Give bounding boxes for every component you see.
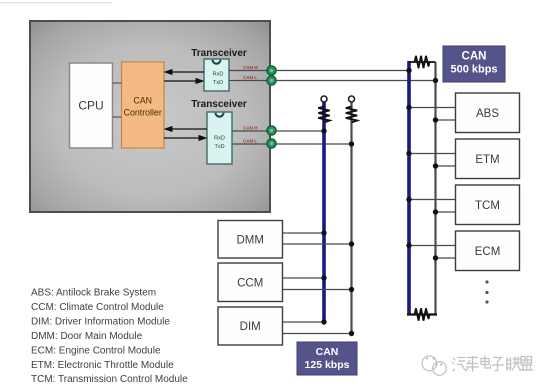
svg-text:ECM: ECM [475,246,501,258]
svg-text:TxD: TxD [213,80,223,86]
svg-text:CAN: CAN [133,96,152,106]
svg-text:ECM: Engine Control Module: ECM: Engine Control Module [31,345,161,356]
svg-text:CAN: CAN [462,51,487,63]
svg-text:CAN: CAN [316,346,339,358]
svg-text:CCM: CCM [237,277,263,289]
svg-text:Transceiver: Transceiver [191,99,247,110]
svg-text:DMM: DMM [236,234,263,246]
svg-text:CAN L: CAN L [243,75,257,80]
svg-text:Controller: Controller [124,108,162,118]
svg-text:DIM: DIM [240,321,261,333]
svg-text:CAN L: CAN L [243,139,257,144]
svg-text:ABS: Antilock Brake System: ABS: Antilock Brake System [31,288,156,299]
svg-text:TCM: Transmission Control Modu: TCM: Transmission Control Module [31,374,188,385]
svg-text:500 kbps: 500 kbps [450,64,497,76]
svg-text:DMM: Door Main Module: DMM: Door Main Module [31,331,143,342]
svg-text:DIM: Driver Information Module: DIM: Driver Information Module [31,316,170,327]
svg-text:TCM: TCM [475,200,500,212]
svg-text:ABS: ABS [476,108,499,120]
svg-text:CAN H: CAN H [243,65,258,70]
svg-text:TxD: TxD [214,144,224,150]
svg-text:RxD: RxD [213,72,224,78]
svg-text:Transceiver: Transceiver [191,48,247,59]
svg-text:RxD: RxD [214,136,225,142]
svg-text:CCM: Climate Control Module: CCM: Climate Control Module [31,302,164,313]
svg-text:ETM: ETM [475,154,499,166]
svg-text:CPU: CPU [78,99,103,113]
svg-text:ETM: Electronic Throttle Modul: ETM: Electronic Throttle Module [31,360,174,371]
svg-text:CAN H: CAN H [243,126,258,131]
svg-text:125 kbps: 125 kbps [305,359,350,371]
